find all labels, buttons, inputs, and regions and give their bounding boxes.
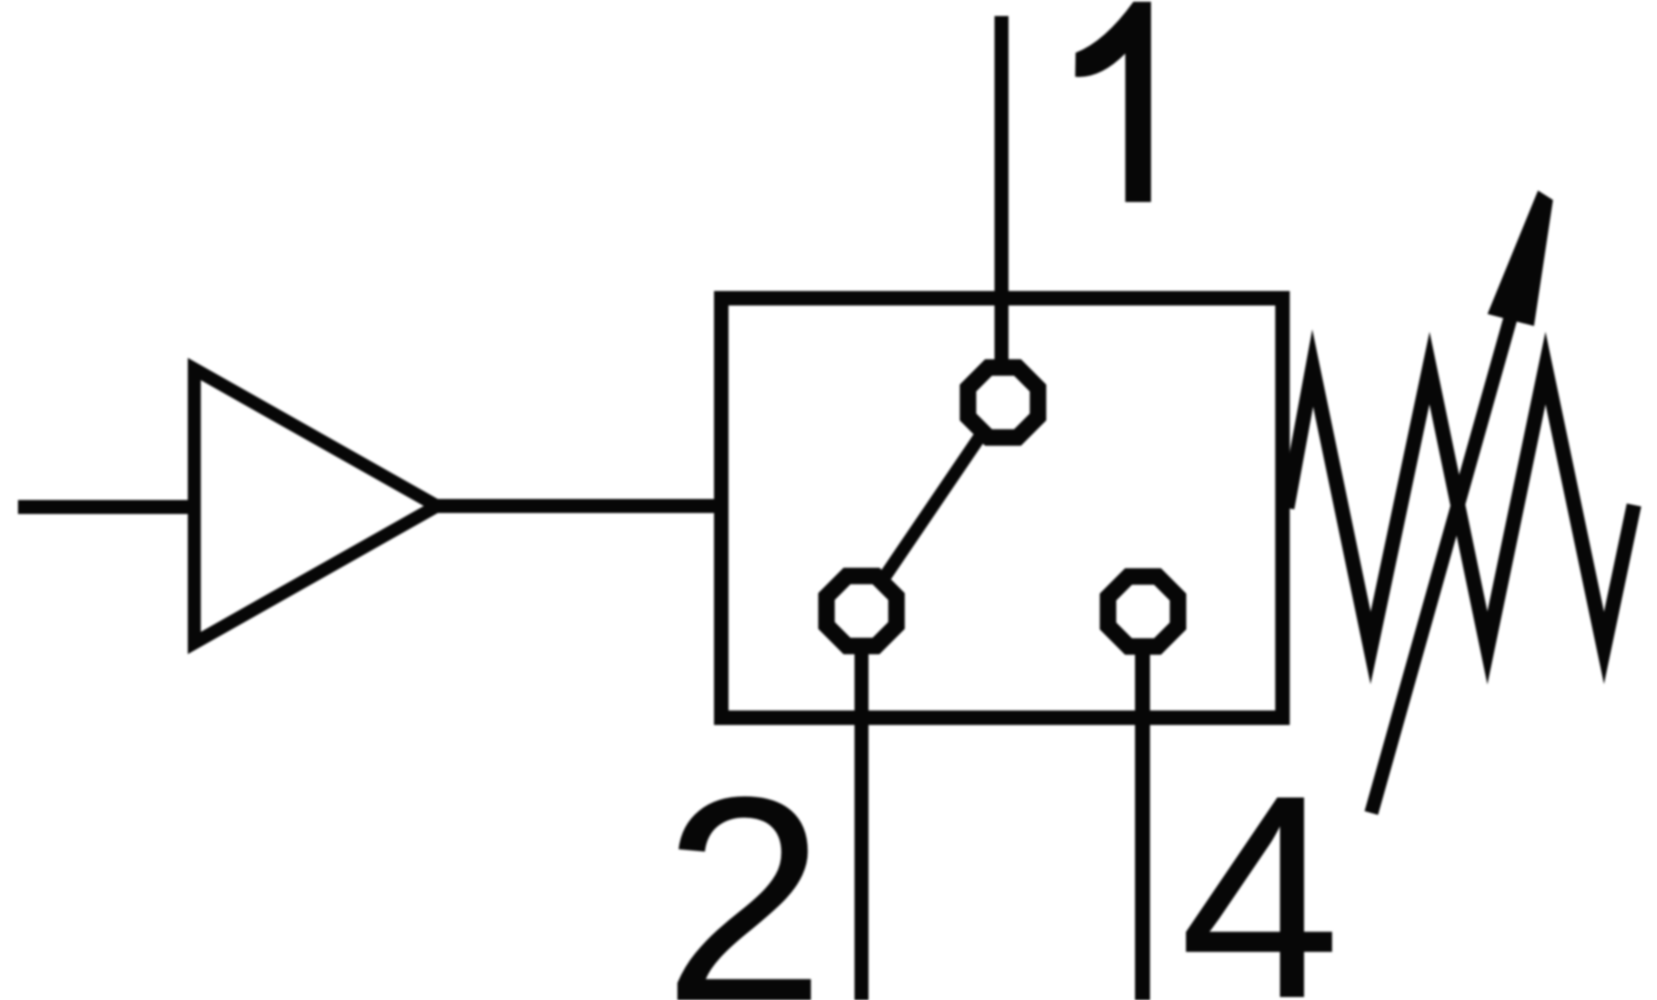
- svg-text:4: 4: [1179, 735, 1340, 1000]
- amplifier triangle A1: [194, 369, 437, 643]
- wire: port 1 vertical: [995, 16, 1009, 403]
- wire: port 2 vertical: [855, 611, 869, 1000]
- wire: port 4 vertical: [1135, 611, 1150, 1000]
- valve seat node (port 2): [827, 576, 897, 646]
- spring (adjustable): [1287, 368, 1634, 648]
- wire: amplifier output to valve body: [437, 499, 716, 513]
- valve seat node (port 1): [968, 368, 1038, 438]
- switch lever wire: [862, 403, 1004, 612]
- adjustment arrow head: [1488, 191, 1554, 327]
- port label 1: [1075, 2, 1151, 202]
- valve body box V1: [721, 298, 1282, 718]
- valve seat node (port 4): [1108, 577, 1178, 647]
- adjustment arrow shaft: [1371, 302, 1515, 813]
- wire: left input: [18, 500, 200, 514]
- svg-text:2: 2: [663, 737, 826, 1000]
